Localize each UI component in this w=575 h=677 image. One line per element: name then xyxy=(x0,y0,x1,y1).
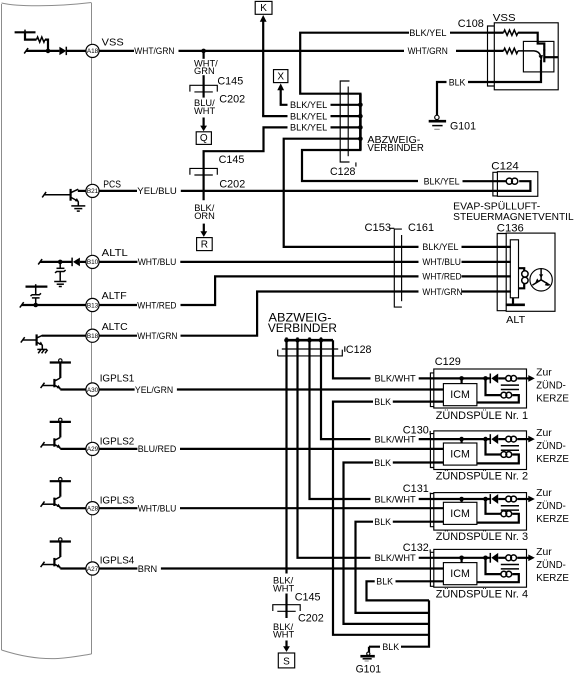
wire common BLK to ground xyxy=(401,600,429,646)
wire BLK/WHT feed to coil 2 xyxy=(321,340,371,439)
wire WHT/BLU to ALT xyxy=(180,261,418,263)
svg-text:WHT/RED: WHT/RED xyxy=(422,272,461,282)
wire rail to resistor xyxy=(25,32,37,39)
wire VSS WHT/GRN to sensor xyxy=(179,50,405,52)
svg-text:BLK: BLK xyxy=(374,517,391,527)
svg-text:BLK/YEL: BLK/YEL xyxy=(290,123,327,133)
svg-text:ICM: ICM xyxy=(450,389,470,401)
svg-text:WHT: WHT xyxy=(194,106,215,116)
svg-text:ORN: ORN xyxy=(194,211,215,221)
diode (coil 2) xyxy=(489,434,491,444)
node ALTF clamp xyxy=(33,303,38,308)
coil box 4 xyxy=(434,549,527,587)
wire R1 to transistor collector xyxy=(518,33,544,51)
svg-text:C202: C202 xyxy=(219,94,245,106)
node coil 4 secondary xyxy=(483,556,488,561)
svg-text:C161: C161 xyxy=(408,222,434,234)
wire ALTC WHT/GRN from pin B18 xyxy=(99,335,137,337)
wire BLK/YEL row 1 to junction bus xyxy=(331,104,361,106)
svg-text:IGPLS2: IGPLS2 xyxy=(100,435,135,447)
svg-text:WHT/GRN: WHT/GRN xyxy=(137,331,177,341)
wire BLK/YEL into VSS sensor xyxy=(450,32,488,34)
wire collector to pin B21 xyxy=(78,190,86,192)
svg-text:A28: A28 xyxy=(87,506,99,513)
wire node to secondary 4 xyxy=(486,558,501,574)
svg-text:IGPLS1: IGPLS1 xyxy=(100,372,135,384)
node coil 1 secondary xyxy=(483,376,488,381)
svg-text:C124: C124 xyxy=(491,160,518,172)
wire emitter to pin (IGPLS4) xyxy=(60,567,86,568)
wire BLK/WHT feed to coil 4 xyxy=(298,340,371,558)
wire BLK/YEL row 2 to junction bus xyxy=(331,115,361,117)
supply rail bar (IGPLS2) xyxy=(50,421,71,423)
wire BLK return left (coil 2) xyxy=(344,463,430,624)
wire node to secondary 3 xyxy=(486,499,501,514)
secondary winding (coil 4) xyxy=(501,571,507,577)
connector C136 bracket xyxy=(497,234,506,311)
secondary winding (coil 3) xyxy=(501,511,507,517)
arrow to Q xyxy=(200,126,207,132)
wire BLK return left (coil 4) xyxy=(367,581,430,600)
nodes junction bus xyxy=(284,338,289,343)
wire BLK/WHT feed to coil 3 xyxy=(310,340,371,499)
transformer core (coil 3) xyxy=(501,506,519,510)
transistor Q-PCS base wire xyxy=(42,192,46,197)
svg-text:YEL/BLU: YEL/BLU xyxy=(137,186,177,196)
wire BLK into coil box 4 xyxy=(396,580,444,582)
pin A18 xyxy=(86,44,99,57)
terminal box R xyxy=(197,238,213,251)
wire BLK/WHT into coil box 1 xyxy=(419,377,491,379)
wire BLK/YEL row1 elbow xyxy=(281,103,288,104)
wire BLK into coil box 2 xyxy=(393,461,444,463)
wire node to ICM 4 xyxy=(461,558,463,563)
svg-text:C202: C202 xyxy=(298,613,324,625)
transistor Q-IGPLS2 xyxy=(53,438,55,446)
svg-text:G101: G101 xyxy=(450,120,476,132)
svg-text:WHT/RED: WHT/RED xyxy=(137,300,176,310)
connector pin nubs xyxy=(285,337,287,340)
transistor Q-ALTC base wire xyxy=(21,337,25,342)
diode (coil 1) xyxy=(489,374,491,384)
transistor Q-IGPLS3 xyxy=(53,498,55,506)
ICM box (coil 4) xyxy=(443,563,477,585)
VSS sensor inner box xyxy=(523,41,554,72)
resistor R1 (VSS sensor) xyxy=(488,32,504,34)
node ALTL clamp xyxy=(58,260,63,265)
svg-text:WHT/GRN: WHT/GRN xyxy=(422,287,462,297)
supply rail bar (IGPLS4) xyxy=(50,540,71,542)
wire rail to transistor (IGPLS3) xyxy=(59,481,61,497)
node junction row 5 xyxy=(358,136,363,141)
svg-text:ICM: ICM xyxy=(450,568,470,580)
wire IGPLS2 BLU/RED xyxy=(99,448,137,450)
connector C128 bracket xyxy=(340,81,349,162)
svg-text:KERZE: KERZE xyxy=(536,573,569,584)
svg-text:B18: B18 xyxy=(87,333,99,340)
node junction row 3 xyxy=(358,125,363,130)
ECM band left edge xyxy=(1,4,3,650)
wire BLK elbow to G101 xyxy=(437,82,447,115)
arrow to spark plug (coil 4) xyxy=(528,555,535,562)
wire BLK into coil box 1 xyxy=(393,401,444,403)
pin A29 xyxy=(86,442,99,455)
wire ALTL WHT/BLU from pin B10 xyxy=(99,261,137,263)
supply rail bar (VSS pull-up) xyxy=(15,31,36,33)
supply rail bar (ALTF) xyxy=(26,286,48,288)
svg-text:KERZE: KERZE xyxy=(536,514,569,525)
svg-text:WHT/GRN: WHT/GRN xyxy=(408,46,448,56)
svg-text:C129: C129 xyxy=(435,356,461,368)
junction bus (C128 bottom) xyxy=(285,339,333,342)
svg-text:BLK/YEL: BLK/YEL xyxy=(424,177,460,187)
wire diode to pin B10 xyxy=(80,261,86,263)
pin A30 xyxy=(86,383,99,396)
transistor (VSS sensor) xyxy=(543,50,545,63)
connector C128 inner face xyxy=(347,87,349,157)
svg-text:VERBINDER: VERBINDER xyxy=(268,321,337,335)
svg-text:Zur: Zur xyxy=(536,428,552,439)
svg-text:ZÜND-: ZÜND- xyxy=(536,559,566,571)
pin B18 xyxy=(86,329,99,342)
svg-text:A18: A18 xyxy=(87,48,99,55)
svg-text:B21: B21 xyxy=(87,188,99,195)
svg-text:WHT/BLU: WHT/BLU xyxy=(422,257,461,267)
coil box 3 xyxy=(434,493,527,530)
wire rail to transistor (IGPLS2) xyxy=(59,422,61,438)
coil box 2 xyxy=(434,431,527,470)
base wire (IGPLS2) xyxy=(41,442,45,447)
wire BLK to G101 xyxy=(369,647,380,653)
VSS sensor box xyxy=(494,23,558,90)
wire BLK/WHT into coil box 3 xyxy=(419,498,491,500)
node VSS branch xyxy=(201,49,206,54)
wire VSS internal xyxy=(24,48,28,53)
svg-text:ALT: ALT xyxy=(506,314,526,326)
transformer core (coil 1) xyxy=(501,385,519,389)
pin B13 xyxy=(86,298,99,311)
secondary winding (coil 2) xyxy=(501,452,507,458)
connector C131 bracket xyxy=(430,494,434,527)
svg-text:KERZE: KERZE xyxy=(536,454,569,465)
terminal box X xyxy=(274,70,288,83)
svg-text:ALTC: ALTC xyxy=(102,321,128,333)
transistor Q-IGPLS1 xyxy=(53,379,55,387)
primary winding (coil 4) xyxy=(498,557,506,559)
svg-text:C131: C131 xyxy=(403,483,429,495)
arrow to spark plug (coil 2) xyxy=(528,436,535,443)
svg-text:WHT: WHT xyxy=(273,584,294,594)
svg-text:VSS: VSS xyxy=(102,36,124,48)
svg-text:ZÜNDSPÜLE Nr. 4: ZÜNDSPÜLE Nr. 4 xyxy=(436,589,528,601)
wire emitter to pin (IGPLS2) xyxy=(60,448,86,449)
wire IGPLS1 YEL/GRN xyxy=(99,388,135,390)
wire node to secondary 2 xyxy=(486,439,501,454)
terminal box Q xyxy=(196,132,211,145)
svg-text:B10: B10 xyxy=(87,259,99,266)
svg-text:YEL/GRN: YEL/GRN xyxy=(135,385,173,395)
generator symbol (ALT) xyxy=(530,269,552,291)
svg-text:C108: C108 xyxy=(458,18,484,30)
wire BLK/WHT into coil box 2 xyxy=(419,438,491,440)
supply rail bar (IGPLS3) xyxy=(50,480,71,482)
arrow to S xyxy=(283,646,290,652)
ECM band right edge xyxy=(91,3,93,654)
connector C145/C202 (PCS branch) xyxy=(190,168,217,174)
svg-text:S: S xyxy=(283,657,290,668)
wire PCS YEL/BLU to EVAP valve xyxy=(181,181,531,191)
wire ALTF internal xyxy=(20,302,24,307)
connector C124 bracket xyxy=(493,172,498,196)
primary winding (coil 3) xyxy=(498,498,506,500)
svg-text:EVAP-SPÜLLUFT-: EVAP-SPÜLLUFT- xyxy=(453,201,540,213)
svg-text:ZÜND-: ZÜND- xyxy=(536,440,566,452)
svg-text:IGPLS3: IGPLS3 xyxy=(100,495,135,507)
wire PCS YEL/BLU from pin B21 xyxy=(99,190,137,192)
ignition feed wire via junction bus (to VSS sensor B+) xyxy=(300,33,418,181)
diode (VSS input) xyxy=(59,47,66,55)
connector C153 xyxy=(394,229,402,307)
svg-text:ZÜND-: ZÜND- xyxy=(536,500,566,512)
transistor Q-ALTC xyxy=(35,334,37,345)
wire WHT/GRN to ALT xyxy=(181,292,419,336)
wire ALTL internal xyxy=(38,259,42,264)
svg-text:BLK/WHT: BLK/WHT xyxy=(375,553,417,563)
node pull-up/VSS xyxy=(46,49,51,54)
svg-text:G101: G101 xyxy=(356,663,381,675)
svg-text:GRN: GRN xyxy=(194,66,215,76)
svg-text:C132: C132 xyxy=(403,542,429,554)
transistor Q-PCS xyxy=(69,189,71,201)
svg-text:ZÜNDSPÜLE Nr. 2: ZÜNDSPÜLE Nr. 2 xyxy=(436,470,528,482)
svg-text:WHT: WHT xyxy=(273,630,294,640)
wire emitter to pin (IGPLS1) xyxy=(60,388,86,389)
wire BLK to ground xyxy=(468,81,488,83)
svg-text:Zur: Zur xyxy=(536,488,552,499)
terminal box S xyxy=(278,653,294,668)
node coil 3 secondary xyxy=(483,497,488,502)
wire collector to pin B18 xyxy=(42,335,86,337)
transformer core (coil 2) xyxy=(501,446,519,450)
arrow to spark plug (coil 1) xyxy=(528,375,535,382)
diode (coil 4) xyxy=(489,553,491,563)
coil box 1 xyxy=(434,369,527,408)
svg-text:BLK/WHT: BLK/WHT xyxy=(375,374,417,384)
wire rail to transistor (IGPLS1) xyxy=(59,363,61,379)
connector C130 bracket xyxy=(430,434,434,468)
ECM band top torn edge xyxy=(2,3,92,6)
wire BLK/YEL row3 chain to C145 xyxy=(204,127,288,200)
secondary winding (coil 1) xyxy=(501,392,507,398)
ICM box (coil 3) xyxy=(443,502,477,524)
svg-text:BRN: BRN xyxy=(138,564,158,574)
supply rail bar (IGPLS1) xyxy=(50,361,71,363)
svg-text:A30: A30 xyxy=(87,387,99,394)
node junction row 1 xyxy=(358,103,363,108)
node coil 2 secondary xyxy=(483,437,488,442)
junction bus (C128 top) xyxy=(359,94,362,150)
wire rail to transistor (IGPLS4) xyxy=(59,542,61,558)
diode (ALTL) xyxy=(71,258,73,267)
ground G101 (sensor) xyxy=(435,115,439,119)
diode (coil 3) xyxy=(489,494,491,504)
base wire (IGPLS3) xyxy=(41,501,45,506)
svg-text:X: X xyxy=(277,71,284,82)
svg-text:Zur: Zur xyxy=(536,547,552,558)
svg-text:B13: B13 xyxy=(87,302,99,309)
pin B10 xyxy=(86,255,99,268)
svg-text:BLK/YEL: BLK/YEL xyxy=(422,242,458,252)
ground (ALTC emitter) xyxy=(41,345,43,349)
base wire (IGPLS4) xyxy=(41,562,45,567)
connector C145/C202 (ignition feed) xyxy=(273,605,300,611)
label C128 leader xyxy=(344,346,346,352)
resistor (VSS pull-up) xyxy=(37,37,45,42)
pin A27 xyxy=(86,562,99,575)
node coil 1 ICM feed xyxy=(459,376,464,381)
pin A28 xyxy=(86,502,99,515)
primary winding (coil 2) xyxy=(498,438,506,440)
label C128 leader xyxy=(355,162,357,166)
svg-text:C130: C130 xyxy=(403,425,429,437)
wire VSS WHT/GRN from pin A18 xyxy=(99,50,134,52)
resistor R2 (VSS sensor) xyxy=(456,50,504,52)
wire BLK return left (coil 1) xyxy=(333,402,429,635)
ground (ALTL) xyxy=(54,281,66,283)
svg-text:ICM: ICM xyxy=(450,449,470,461)
connector C108 bracket xyxy=(488,26,495,86)
wire BLK/YEL to EVAP valve xyxy=(463,180,507,182)
wire ALTF WHT/RED from pin B13 xyxy=(99,304,137,306)
wire diode to pin A18 xyxy=(66,50,86,52)
node coil 3 ICM feed xyxy=(459,497,464,502)
svg-text:KERZE: KERZE xyxy=(536,393,569,404)
terminal box K xyxy=(255,1,272,14)
wire BLK/WHT into coil box 4 xyxy=(419,557,491,559)
zener clamp (ALTF) xyxy=(35,298,37,305)
svg-text:C145: C145 xyxy=(295,591,321,603)
svg-text:A27: A27 xyxy=(87,566,99,573)
svg-text:C145: C145 xyxy=(217,76,243,88)
wire emitter to BLK xyxy=(488,60,542,83)
svg-text:BLK/YEL: BLK/YEL xyxy=(290,111,327,121)
svg-text:VSS: VSS xyxy=(493,12,516,24)
svg-text:WHT/GRN: WHT/GRN xyxy=(134,46,174,56)
wire ALT internal ground xyxy=(512,298,514,304)
wire stub1 to S-chain xyxy=(285,340,287,573)
wire BLK/YEL row 3 to junction bus xyxy=(331,126,361,128)
solenoid coil (EVAP) xyxy=(506,178,512,184)
connector C128 face upper xyxy=(282,348,338,350)
svg-text:VERBINDER: VERBINDER xyxy=(367,143,424,154)
wire emitter to pin (IGPLS3) xyxy=(60,507,86,508)
svg-text:BLK: BLK xyxy=(376,577,393,587)
svg-text:BLU/RED: BLU/RED xyxy=(138,444,177,454)
svg-text:ZÜNDSPÜLE Nr. 3: ZÜNDSPÜLE Nr. 3 xyxy=(436,531,528,543)
arrow from BLK/YEL row 2 to K xyxy=(260,15,267,22)
svg-text:BLK/YEL: BLK/YEL xyxy=(290,100,327,110)
ICM box (coil 1) xyxy=(443,384,477,406)
svg-text:BLK: BLK xyxy=(382,642,399,652)
svg-text:ALTF: ALTF xyxy=(102,290,127,302)
wire BLK/YEL to ALT (junction row 5) xyxy=(284,139,419,247)
svg-text:C128: C128 xyxy=(346,344,372,356)
pin B21 xyxy=(86,184,99,197)
connector C129 bracket xyxy=(430,373,434,407)
svg-text:ICM: ICM xyxy=(450,508,470,520)
svg-text:Q: Q xyxy=(200,133,208,144)
connector C161 xyxy=(401,235,403,301)
svg-text:Zur: Zur xyxy=(536,367,552,378)
ALT box xyxy=(506,233,555,311)
arrow from BLK/YEL row 1 to X xyxy=(277,83,284,90)
svg-text:K: K xyxy=(260,3,267,14)
svg-text:ALTL: ALTL xyxy=(102,247,128,259)
wire branch to C145 xyxy=(203,51,205,59)
svg-text:C145: C145 xyxy=(219,154,245,166)
svg-text:C153: C153 xyxy=(365,222,392,234)
svg-text:A29: A29 xyxy=(87,446,99,453)
C153/C161 leader tick xyxy=(389,227,394,229)
zener clamp (ALTL) xyxy=(59,262,61,268)
node coil 2 ICM feed xyxy=(459,437,464,442)
wire node to ICM 3 xyxy=(461,499,463,502)
svg-text:BLK: BLK xyxy=(449,77,466,87)
ICM box (coil 2) xyxy=(443,443,477,465)
svg-text:C128: C128 xyxy=(330,166,355,178)
svg-text:IGPLS4: IGPLS4 xyxy=(100,554,135,566)
svg-text:C202: C202 xyxy=(219,178,245,190)
wire BLK into coil box 3 xyxy=(393,521,444,523)
svg-text:ZÜNDSPÜLE Nr. 1: ZÜNDSPÜLE Nr. 1 xyxy=(436,410,528,422)
ground G101 (coils) xyxy=(367,652,370,655)
ECM band bottom torn edge xyxy=(2,650,92,659)
svg-text:BLK: BLK xyxy=(374,397,391,407)
svg-text:ZÜND-: ZÜND- xyxy=(536,379,566,391)
wire BLK/YEL row2 elbow xyxy=(263,115,287,116)
wire WHT/RED to ALT xyxy=(181,276,419,305)
wire BLK/WHT feed to coil 1 xyxy=(333,340,371,378)
EVAP solenoid box xyxy=(497,172,537,197)
arrow to spark plug (coil 3) xyxy=(528,496,535,503)
wire node to ICM 2 xyxy=(461,439,463,443)
connector C128 face lower xyxy=(278,350,343,356)
wire BLK return left (coil 3) xyxy=(356,522,430,613)
svg-text:WHT/BLU: WHT/BLU xyxy=(138,257,177,267)
wire IGPLS4 BRN xyxy=(99,567,137,569)
transformer core (coil 4) xyxy=(501,565,519,569)
connector C132 bracket xyxy=(430,552,434,586)
svg-text:R: R xyxy=(201,239,208,250)
ground (PCS emitter) xyxy=(77,201,79,206)
wire resistor to node xyxy=(45,40,48,51)
connector C145/C202 (VSS branch) xyxy=(190,85,217,91)
ALT field coil xyxy=(519,268,525,271)
wire node to secondary 1 xyxy=(486,378,501,395)
wire IGPLS3 WHT/BLU xyxy=(99,507,137,509)
svg-text:BLK/WHT: BLK/WHT xyxy=(375,494,417,504)
wire node to ICM 1 xyxy=(461,378,463,383)
svg-text:BLK: BLK xyxy=(374,458,391,468)
ALT connector body xyxy=(510,240,518,298)
node junction row 2 xyxy=(358,114,363,119)
svg-text:PCS: PCS xyxy=(103,179,121,191)
transistor Q-IGPLS4 xyxy=(53,558,55,566)
wire into connector C145/C202 xyxy=(203,75,205,97)
base wire (IGPLS1) xyxy=(41,383,45,388)
primary winding (coil 1) xyxy=(498,377,506,379)
svg-text:WHT/BLU: WHT/BLU xyxy=(138,504,177,514)
